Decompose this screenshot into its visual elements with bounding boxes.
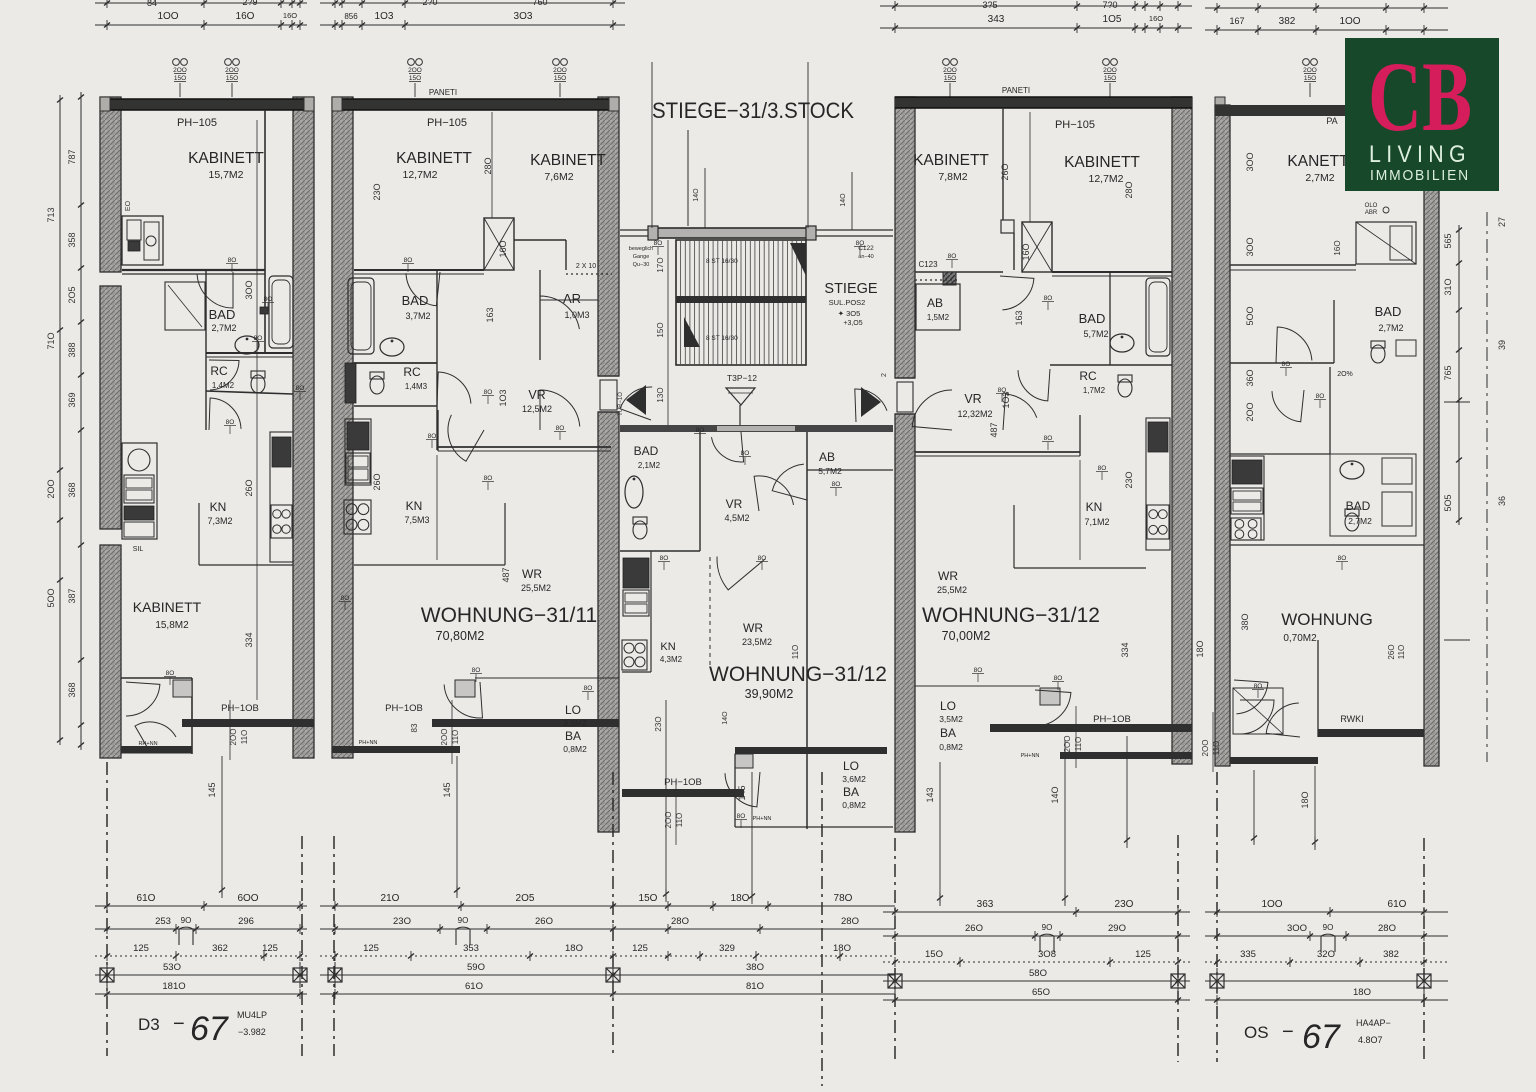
svg-text:8O: 8O — [948, 253, 957, 260]
svg-text:2?9: 2?9 — [242, 0, 257, 7]
svg-text:Qu−30: Qu−30 — [633, 262, 650, 268]
stair guide verticals above — [704, 168, 706, 228]
svg-text:15O: 15O — [409, 75, 421, 82]
block3 WC — [1118, 375, 1132, 382]
svg-text:2OO: 2OO — [553, 67, 567, 74]
svg-text:WR: WR — [522, 567, 542, 581]
top dimension lines block3 — [880, 5, 1192, 7]
svg-text:388: 388 — [67, 342, 77, 357]
svg-text:18O: 18O — [833, 943, 851, 954]
svg-text:358: 358 — [67, 232, 77, 247]
svg-text:23O: 23O — [1115, 899, 1134, 910]
svg-text:4,3M2: 4,3M2 — [660, 655, 683, 664]
svg-text:EO: EO — [125, 200, 132, 211]
svg-text:MU4LP: MU4LP — [237, 1010, 267, 1020]
block1 WC — [251, 371, 265, 378]
left dimension line outer — [59, 100, 61, 740]
svg-text:334: 334 — [1120, 642, 1130, 657]
svg-text:8O: 8O — [1054, 675, 1063, 682]
bottom dims block3 — [883, 911, 1190, 913]
svg-text:SIL: SIL — [133, 546, 144, 553]
block1 sink — [235, 336, 259, 354]
svg-text:15,8M2: 15,8M2 — [155, 620, 189, 631]
svg-text:KANETT: KANETT — [1287, 153, 1349, 170]
svg-text:13O: 13O — [656, 387, 665, 402]
svg-text:WR: WR — [743, 621, 763, 635]
block1 right wall — [293, 97, 314, 758]
svg-text:8O: 8O — [654, 240, 663, 247]
block3 central shaft — [1022, 222, 1052, 272]
svg-text:18O: 18O — [565, 943, 583, 954]
svg-text:28O: 28O — [1124, 181, 1134, 198]
block3 partition VR/WR — [915, 451, 1080, 453]
block2 interior dim line — [491, 112, 493, 218]
block4 mid walls — [1329, 367, 1331, 454]
block3 sink — [1110, 334, 1134, 352]
middle bottom room — [734, 754, 736, 827]
svg-text:382: 382 — [1279, 16, 1296, 27]
block1 top wall — [100, 99, 314, 110]
svg-text:2OO: 2OO — [1063, 736, 1072, 753]
svg-text:163: 163 — [485, 307, 495, 322]
surveyor marks — [100, 968, 114, 982]
svg-text:334: 334 — [244, 632, 254, 647]
svg-text:12,7M2: 12,7M2 — [1088, 173, 1123, 185]
svg-text:2OO: 2OO — [225, 67, 239, 74]
svg-text:BAD: BAD — [1079, 311, 1106, 326]
right dash-dot axis — [1486, 212, 1488, 762]
svg-text:LO: LO — [940, 699, 956, 713]
stair hall boundary verticals above — [651, 62, 653, 228]
svg-text:11O: 11O — [1074, 737, 1083, 752]
block1 bath top-left fixtures — [122, 216, 163, 265]
middle hall wall — [620, 425, 893, 432]
svg-text:16O: 16O — [283, 11, 297, 20]
svg-text:BA: BA — [843, 785, 859, 799]
svg-text:4,5M2: 4,5M2 — [724, 513, 749, 523]
block2 bottom thick wall — [432, 719, 619, 727]
svg-text:7?0: 7?0 — [1102, 0, 1117, 10]
top dimension lines block1 — [95, 2, 307, 4]
svg-text:8O: 8O — [1254, 683, 1263, 690]
block2 partition wall upper — [354, 269, 484, 271]
svg-text:487: 487 — [989, 422, 999, 437]
block3 sill dotted — [915, 279, 960, 281]
door closer funnel — [726, 388, 755, 405]
svg-text:2OO: 2OO — [1201, 740, 1210, 757]
svg-text:OS: OS — [1244, 1023, 1269, 1042]
svg-text:8O: 8O — [228, 257, 237, 264]
top dimension lines block2 — [320, 2, 625, 4]
svg-text:CB: CB — [1368, 41, 1472, 152]
svg-text:3O8: 3O8 — [1038, 949, 1056, 960]
top wall end posts — [100, 97, 110, 111]
svg-text:181O: 181O — [162, 981, 185, 992]
svg-text:2 X 10: 2 X 10 — [576, 263, 596, 270]
stair arrow down — [684, 317, 700, 347]
top wall markers — [173, 59, 180, 66]
svg-text:38O: 38O — [746, 962, 764, 973]
svg-text:0,8M2: 0,8M2 — [563, 744, 587, 754]
svg-text:71O: 71O — [46, 332, 56, 349]
svg-text:65O: 65O — [1032, 987, 1050, 998]
svg-text:8O: 8O — [660, 555, 669, 562]
block2 left wall — [332, 97, 353, 758]
svg-text:25,5M2: 25,5M2 — [937, 585, 967, 595]
svg-text:8O: 8O — [264, 296, 273, 303]
svg-text:760: 760 — [532, 0, 547, 7]
block3 interior dim line — [1029, 112, 1031, 222]
svg-text:23O: 23O — [372, 183, 382, 200]
svg-text:28O: 28O — [1378, 923, 1396, 934]
svg-text:2OO: 2OO — [440, 729, 449, 746]
block3 door arcs — [1000, 276, 1034, 310]
svg-text:TUR−1O: TUR−1O — [618, 392, 624, 416]
svg-text:0,70M2: 0,70M2 — [1283, 633, 1317, 644]
svg-text:125: 125 — [632, 943, 648, 954]
svg-text:3,7M2: 3,7M2 — [405, 311, 430, 321]
svg-text:21O: 21O — [381, 893, 400, 904]
svg-text:VR: VR — [964, 392, 981, 406]
svg-text:15O: 15O — [944, 75, 956, 82]
svg-text:WR: WR — [938, 569, 958, 583]
svg-text:8O: 8O — [254, 335, 263, 342]
middle AB room — [806, 432, 808, 829]
svg-text:3,6M2: 3,6M2 — [842, 774, 866, 784]
svg-text:7,5M3: 7,5M3 — [404, 515, 429, 525]
svg-text:765: 765 — [1443, 365, 1453, 380]
svg-text:81O: 81O — [746, 981, 764, 992]
svg-text:61O: 61O — [137, 893, 156, 904]
svg-text:2OO: 2OO — [46, 479, 56, 498]
svg-text:343: 343 — [988, 14, 1005, 25]
bottom dims block2 — [320, 905, 625, 907]
svg-text:143: 143 — [925, 787, 935, 802]
svg-text:PANETI: PANETI — [429, 88, 457, 97]
svg-text:7,3M2: 7,3M2 — [207, 516, 232, 526]
svg-text:2OO: 2OO — [408, 67, 422, 74]
svg-text:145: 145 — [207, 782, 217, 797]
svg-text:KABINETT: KABINETT — [188, 150, 264, 167]
svg-text:38O: 38O — [1240, 613, 1250, 630]
svg-text:BAD: BAD — [634, 444, 659, 458]
svg-text:8O: 8O — [856, 240, 865, 247]
bottom dims block1 — [95, 905, 307, 907]
block3 partition mid — [1109, 272, 1111, 365]
svg-text:15O: 15O — [639, 893, 658, 904]
svg-text:14O: 14O — [840, 193, 847, 207]
svg-text:PH+NN: PH+NN — [1021, 753, 1040, 759]
svg-text:VR: VR — [528, 388, 545, 402]
svg-text:2OO: 2OO — [664, 812, 673, 829]
svg-text:12,7M2: 12,7M2 — [402, 169, 437, 181]
svg-text:−: − — [173, 1013, 185, 1035]
block3 left wall — [895, 97, 915, 378]
svg-text:84: 84 — [147, 0, 157, 8]
svg-text:26O: 26O — [1000, 163, 1010, 180]
svg-text:11O: 11O — [791, 645, 800, 660]
svg-text:9O: 9O — [1323, 923, 1334, 932]
svg-text:C123: C123 — [918, 260, 938, 269]
svg-text:296: 296 — [238, 916, 254, 927]
svg-text:32O: 32O — [1317, 949, 1335, 960]
svg-text:26O: 26O — [244, 479, 254, 496]
svg-text:KABINETT: KABINETT — [396, 150, 472, 167]
svg-text:BAD: BAD — [1375, 304, 1402, 319]
svg-text:KN: KN — [406, 499, 423, 513]
svg-text:2O%: 2O% — [1337, 371, 1353, 378]
svg-text:23O: 23O — [1124, 471, 1134, 488]
svg-text:8O: 8O — [556, 425, 565, 432]
svg-text:2,7M2: 2,7M2 — [1378, 323, 1403, 333]
svg-text:−: − — [1282, 1021, 1294, 1043]
svg-text:ABR: ABR — [1365, 210, 1378, 216]
svg-text:3?5: 3?5 — [982, 0, 997, 10]
block2 sill dotted — [566, 273, 612, 275]
svg-text:363: 363 — [977, 899, 994, 910]
block4 bottom wall — [1230, 757, 1318, 764]
svg-text:8 ST 16/30: 8 ST 16/30 — [706, 335, 738, 342]
block4 door arc — [1276, 327, 1312, 363]
block3 bottom wall — [1060, 752, 1192, 759]
block3 KN wall — [1014, 567, 1146, 569]
block2 partition vertical mid — [436, 270, 438, 450]
svg-text:8O: 8O — [758, 555, 767, 562]
block1 bottom thick wall — [182, 719, 314, 727]
svg-text:8O: 8O — [484, 475, 493, 482]
block4 partition 3 — [1230, 544, 1424, 546]
block2 bottom wall — [332, 746, 460, 753]
svg-text:KABINETT: KABINETT — [1064, 154, 1140, 171]
svg-text:WOHNUNG−31/11: WOHNUNG−31/11 — [421, 604, 597, 627]
svg-text:KN: KN — [210, 500, 227, 514]
svg-text:163: 163 — [1014, 310, 1024, 325]
svg-text:2,7M2: 2,7M2 — [1348, 516, 1372, 526]
block3 partition vertical top — [1002, 108, 1004, 220]
entry door triangles — [626, 385, 646, 415]
svg-text:335: 335 — [1240, 949, 1256, 960]
svg-text:61O: 61O — [1388, 899, 1407, 910]
svg-text:1,4M2: 1,4M2 — [212, 381, 235, 390]
block2 bottom door — [455, 680, 475, 697]
block4 partition 1 — [1230, 264, 1356, 266]
svg-text:2OO: 2OO — [1103, 67, 1117, 74]
svg-text:8O: 8O — [741, 450, 750, 457]
svg-text:1,0M3: 1,0M3 — [564, 310, 589, 320]
svg-text:125: 125 — [133, 943, 149, 954]
svg-text:7,8M2: 7,8M2 — [938, 171, 967, 183]
title leader line — [687, 130, 689, 226]
svg-text:2,7M2: 2,7M2 — [211, 323, 236, 333]
svg-text:1O3: 1O3 — [498, 389, 508, 406]
svg-text:RC: RC — [210, 364, 228, 378]
svg-text:36O: 36O — [1245, 369, 1255, 386]
svg-text:7,1M2: 7,1M2 — [1084, 517, 1109, 527]
svg-text:BA: BA — [940, 726, 956, 740]
svg-text:STIEGE−31/3.STOCK: STIEGE−31/3.STOCK — [652, 98, 854, 123]
svg-text:an−40: an−40 — [858, 254, 873, 260]
block1 KN wall — [199, 564, 293, 566]
svg-text:23,5M2: 23,5M2 — [742, 637, 772, 647]
svg-text:167: 167 — [1229, 16, 1244, 26]
svg-text:T3P−12: T3P−12 — [727, 373, 757, 383]
svg-text:382: 382 — [1383, 949, 1399, 960]
block4 bottom rooms — [1317, 640, 1319, 737]
svg-text:3OO: 3OO — [1287, 923, 1307, 934]
svg-text:2?0: 2?0 — [422, 0, 437, 7]
svg-text:8O: 8O — [696, 427, 705, 434]
svg-text:1,7M2: 1,7M2 — [1083, 386, 1106, 395]
svg-text:8O: 8O — [484, 389, 493, 396]
svg-text:9O: 9O — [458, 916, 469, 925]
block3 bathtub — [1146, 278, 1170, 356]
block1 hall wall vertical — [264, 110, 266, 353]
svg-text:+3,O5: +3,O5 — [843, 320, 862, 327]
svg-text:16O: 16O — [236, 11, 255, 22]
svg-text:7,6M2: 7,6M2 — [544, 171, 573, 183]
block3 kitchen right — [1146, 418, 1170, 550]
block4 partition 2 — [1230, 362, 1334, 364]
svg-text:1,4M3: 1,4M3 — [405, 382, 428, 391]
svg-text:362: 362 — [212, 943, 228, 954]
svg-text:LO: LO — [843, 759, 859, 773]
svg-text:145: 145 — [737, 785, 747, 800]
block1 door arc hall — [197, 272, 233, 308]
svg-text:KABINETT: KABINETT — [913, 152, 989, 169]
svg-text:WOHNUNG−31/12: WOHNUNG−31/12 — [709, 663, 887, 686]
svg-text:3OO: 3OO — [244, 280, 254, 299]
svg-text:125: 125 — [1135, 949, 1151, 960]
block4 shower sink top — [1356, 222, 1416, 264]
svg-text:39,90M2: 39,90M2 — [745, 687, 794, 701]
svg-text:PH−105: PH−105 — [177, 117, 217, 129]
svg-text:AR: AR — [563, 291, 581, 306]
svg-text:15O: 15O — [1104, 75, 1116, 82]
svg-text:KABINETT: KABINETT — [133, 599, 202, 615]
block2 right wall — [598, 97, 619, 376]
svg-text:487: 487 — [501, 567, 511, 582]
svg-text:17O: 17O — [656, 257, 665, 272]
block4 bottom thick wall — [1318, 729, 1424, 737]
svg-text:WOHNUNG: WOHNUNG — [1281, 610, 1373, 629]
svg-text:2OO: 2OO — [173, 67, 187, 74]
svg-text:26O: 26O — [535, 916, 553, 927]
block2 bathtub — [348, 278, 374, 354]
svg-text:3O3: 3O3 — [514, 11, 533, 22]
block2 wc room — [354, 362, 437, 364]
svg-text:IMMOBILIEN: IMMOBILIEN — [1370, 167, 1470, 184]
svg-text:8O: 8O — [974, 667, 983, 674]
block1 wall above WC — [206, 352, 293, 354]
svg-text:3OO: 3OO — [1245, 152, 1255, 171]
aux vertical dim stubs — [221, 756, 223, 898]
svg-text:1OO: 1OO — [157, 11, 178, 22]
block4 bad fixtures — [1371, 341, 1385, 348]
svg-text:8O: 8O — [832, 481, 841, 488]
svg-text:18O: 18O — [1353, 987, 1371, 998]
svg-text:D3: D3 — [138, 1015, 160, 1034]
svg-text:OLO: OLO — [1365, 203, 1378, 209]
svg-text:BA: BA — [565, 729, 581, 743]
svg-text:PA: PA — [1326, 116, 1337, 126]
svg-text:8 ST 16/30: 8 ST 16/30 — [706, 258, 738, 265]
svg-text:329: 329 — [719, 943, 735, 954]
svg-text:8O: 8O — [998, 387, 1007, 394]
svg-text:253: 253 — [155, 916, 171, 927]
block1 hall small marks — [260, 307, 268, 314]
svg-text:HA4AP−: HA4AP− — [1356, 1018, 1391, 1028]
svg-text:67: 67 — [190, 1010, 229, 1048]
svg-text:PH−1OB: PH−1OB — [664, 777, 702, 788]
block2 partition VR/WR — [438, 446, 611, 448]
svg-text:26O: 26O — [1387, 644, 1396, 659]
block4 top wall — [1215, 105, 1345, 116]
axis dash-dot lines — [106, 762, 108, 1056]
svg-text:−3.982: −3.982 — [238, 1027, 266, 1037]
block3 AB closet — [916, 284, 960, 330]
svg-text:70,80M2: 70,80M2 — [436, 629, 485, 643]
svg-text:2,1M2: 2,1M2 — [638, 461, 661, 470]
block4 bad2 fixtures right — [1330, 454, 1416, 536]
block1 vertical dim — [256, 120, 258, 700]
svg-text:5,7M2: 5,7M2 — [818, 466, 842, 476]
svg-text:11O: 11O — [1397, 645, 1406, 660]
svg-text:BAD: BAD — [1346, 499, 1371, 513]
block3 partition wall upper — [1052, 271, 1172, 273]
svg-text:15O: 15O — [925, 949, 943, 960]
svg-text:9O: 9O — [181, 916, 192, 925]
svg-text:3,6M2: 3,6M2 — [563, 718, 587, 728]
svg-text:16O: 16O — [1149, 14, 1163, 23]
block1 kitchen counter right — [270, 432, 293, 562]
svg-text:565: 565 — [1443, 233, 1453, 248]
svg-text:6OO: 6OO — [237, 893, 258, 904]
svg-text:PH−1OB: PH−1OB — [221, 703, 259, 714]
svg-text:1OO: 1OO — [1339, 16, 1360, 27]
svg-text:AB: AB — [927, 296, 943, 310]
svg-text:8O: 8O — [428, 433, 437, 440]
svg-text:8O: 8O — [1098, 465, 1107, 472]
block1 kitchen fixtures — [122, 443, 157, 539]
middle bottom thick wall right — [735, 747, 887, 754]
left dimension line inner — [80, 92, 82, 748]
svg-text:2,7M2: 2,7M2 — [1305, 172, 1334, 184]
svg-text:8O: 8O — [472, 667, 481, 674]
svg-text:8O: 8O — [226, 419, 235, 426]
svg-text:5OO: 5OO — [46, 588, 56, 607]
svg-text:2OO: 2OO — [943, 67, 957, 74]
svg-text:713: 713 — [46, 207, 56, 222]
svg-text:856: 856 — [344, 12, 358, 21]
svg-text:KABINETT: KABINETT — [530, 152, 606, 169]
svg-text:PH+NN: PH+NN — [359, 740, 378, 746]
svg-text:368: 368 — [67, 482, 77, 497]
svg-text:78O: 78O — [834, 893, 853, 904]
svg-text:beweglich: beweglich — [629, 246, 653, 252]
svg-text:15O: 15O — [226, 75, 238, 82]
svg-text:368: 368 — [67, 682, 77, 697]
svg-text:145: 145 — [442, 782, 452, 797]
middle door arcs — [754, 476, 793, 511]
svg-text:369: 369 — [67, 392, 77, 407]
svg-text:5O5: 5O5 — [1443, 494, 1453, 511]
block4 kitchen fixtures left — [1230, 456, 1264, 540]
svg-text:✦ 3O5: ✦ 3O5 — [838, 309, 861, 318]
block1 door arcs mid — [209, 360, 239, 390]
logo CB Living Immobilien — [1345, 38, 1499, 191]
block2 AR closet — [539, 270, 541, 360]
svg-text:2O5: 2O5 — [67, 286, 77, 303]
